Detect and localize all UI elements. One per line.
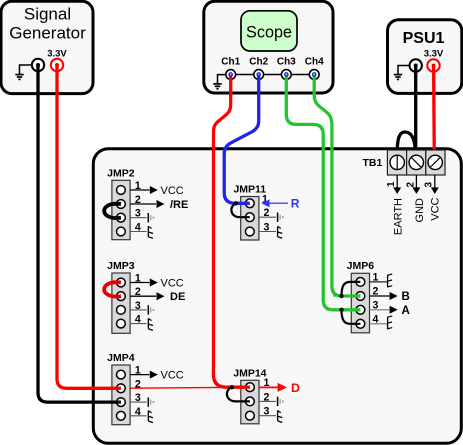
svg-text:4: 4 — [135, 406, 141, 418]
svg-text:Ch1: Ch1 — [221, 57, 240, 68]
JMP4 pin circles — [117, 370, 126, 420]
wire black jumper arc TB1 terminal 2 to terminal 1 — [397, 132, 415, 155]
JMP2 pin 3 stub — [130, 208, 154, 223]
svg-text:4: 4 — [135, 314, 141, 326]
signal generator box — [1, 1, 93, 93]
signal generator red terminal — [51, 59, 63, 71]
JMP4 pin 4 stub — [130, 406, 153, 423]
svg-text:2: 2 — [264, 391, 270, 403]
scope Ch3 pin ring — [285, 73, 288, 76]
svg-text:B: B — [402, 291, 410, 303]
JMP11 jumper pin1-pin2 — [231, 203, 249, 217]
signal generator red terminal dot — [55, 63, 59, 67]
JMP11 header — [233, 183, 266, 240]
JMP11 pin 3 stub — [259, 222, 282, 239]
svg-text:Signal: Signal — [24, 5, 71, 24]
svg-text:2: 2 — [135, 194, 141, 206]
svg-text:VCC: VCC — [429, 197, 441, 220]
PSU1 black terminal — [410, 59, 422, 71]
scope Ch3 connector — [281, 70, 291, 80]
JMP6 pin 3 A arrow — [370, 299, 410, 317]
wire black PSU1 to TB1 terminal 2 — [414, 66, 417, 159]
PSU1 red terminal dot — [432, 64, 436, 68]
JMP2 pin 1 VCC arrow — [130, 180, 184, 197]
svg-text:3: 3 — [135, 392, 141, 404]
svg-text:3: 3 — [373, 299, 379, 311]
JMP11 pin circles — [245, 199, 254, 236]
PSU1 ground — [394, 66, 410, 80]
JMP6 junction dot pin2 — [339, 294, 343, 298]
svg-text:/RE: /RE — [170, 199, 188, 211]
svg-text:JMP2: JMP2 — [107, 167, 135, 179]
svg-text:Generator: Generator — [9, 23, 86, 42]
JMP6 left stub pin 2 — [333, 295, 351, 297]
JMP6 left stub pin 3 — [326, 309, 351, 311]
signal generator black terminal dot — [36, 63, 40, 67]
JMP14 pin circles — [246, 383, 255, 420]
svg-text:Ch4: Ch4 — [305, 57, 324, 68]
signal generator black terminal — [32, 59, 44, 71]
wire red JMP4 pin 2 to JMP14 pin 1 — [130, 386, 240, 389]
JMP14 pin 2 stub — [259, 391, 284, 406]
JMP6 jumper pin3 line to pin4 — [342, 310, 361, 324]
svg-text:EARTH: EARTH — [392, 198, 404, 235]
JMP14 jumper pin1-pin2 — [227, 387, 250, 401]
wire green Ch3 to JMP6 pin 3 — [286, 75, 360, 310]
svg-text:3: 3 — [135, 300, 141, 312]
svg-text:4: 4 — [373, 313, 379, 325]
svg-text:Scope: Scope — [246, 23, 292, 41]
PSU1 box — [388, 20, 462, 94]
signal generator ground — [15, 65, 32, 79]
JMP14 pin 1 D arrow (red) — [259, 377, 300, 395]
TB1 pin 2 arrow — [406, 175, 421, 194]
JMP6 pin circles — [356, 278, 365, 329]
svg-text:4: 4 — [135, 222, 141, 234]
svg-text:1: 1 — [135, 273, 141, 285]
JMP2 jumper pins 2-3 — [104, 204, 121, 218]
TB1 screw terminal 2 — [409, 155, 423, 169]
scope screen — [241, 11, 297, 51]
JMP4 pin 3 stub — [130, 392, 154, 407]
JMP2 header — [107, 167, 135, 239]
svg-text:PSU1: PSU1 — [403, 30, 445, 47]
svg-text:2: 2 — [264, 207, 270, 219]
JMP6 pin 4 stub — [370, 313, 393, 329]
svg-text:1: 1 — [135, 365, 141, 377]
JMP6 junction dot pin3 — [339, 308, 343, 312]
svg-text:3: 3 — [424, 182, 435, 188]
svg-text:VCC: VCC — [161, 370, 184, 382]
PSU1 black terminal dot — [414, 64, 418, 68]
svg-text:A: A — [402, 305, 410, 317]
scope Ch1 connector — [226, 70, 236, 80]
JMP14 junction dot — [230, 385, 234, 389]
JMP3 jumper pins 1-2 (red) — [104, 282, 121, 296]
JMP11 pin 2 stub — [259, 207, 284, 222]
JMP6 header — [347, 260, 375, 333]
svg-text:2: 2 — [406, 182, 417, 188]
wire black signal generator to JMP4 pin 3 — [38, 65, 121, 402]
JMP2 pin 2 /RE arrow — [130, 194, 188, 211]
svg-text:R: R — [291, 197, 300, 211]
TB1 terminal block — [387, 150, 445, 175]
JMP3 header — [107, 260, 135, 333]
svg-text:JMP14: JMP14 — [233, 368, 266, 380]
svg-text:Ch2: Ch2 — [249, 57, 268, 68]
wire blue Ch2 to JMP11 pin 1 — [224, 75, 259, 204]
svg-text:3.3V: 3.3V — [424, 49, 444, 60]
scope Ch1 pin ring — [229, 73, 232, 76]
svg-text:3: 3 — [264, 406, 270, 418]
JMP2 pin circles — [117, 186, 126, 236]
TB1 pin 1 arrow — [386, 175, 401, 194]
svg-text:2: 2 — [135, 286, 141, 298]
svg-text:JMP4: JMP4 — [107, 352, 135, 364]
svg-text:1: 1 — [386, 181, 397, 187]
JMP3 pin circles — [117, 278, 126, 328]
scope bus wire — [231, 74, 315, 76]
svg-text:GND: GND — [414, 198, 426, 223]
scope ground — [213, 75, 225, 89]
JMP3 pin 3 stub — [130, 300, 154, 315]
JMP14 pin 3 stub — [259, 406, 282, 423]
JMP4 header — [107, 352, 135, 425]
PSU1 red terminal — [427, 59, 439, 71]
svg-text:1: 1 — [135, 180, 141, 192]
TB1 screw terminal 1 — [390, 155, 404, 169]
scope box — [204, 1, 333, 93]
svg-text:D: D — [291, 381, 300, 395]
svg-text:TB1: TB1 — [363, 157, 383, 169]
svg-text:JMP6: JMP6 — [347, 260, 375, 272]
TB1 pin 3 arrow — [424, 175, 439, 194]
svg-text:VCC: VCC — [161, 185, 184, 197]
JMP2 pin 4 stub — [130, 222, 153, 239]
svg-text:DE: DE — [170, 291, 185, 303]
svg-text:VCC: VCC — [161, 277, 184, 289]
svg-text:JMP3: JMP3 — [107, 260, 135, 272]
JMP3 pin 1 VCC arrow — [130, 273, 184, 290]
TB1 screw terminal 3 — [428, 155, 442, 169]
svg-text:3: 3 — [135, 208, 141, 220]
svg-text:3: 3 — [264, 222, 270, 234]
wire red signal generator to JMP4 pin 2 — [57, 65, 121, 388]
scope Ch4 pin ring — [313, 73, 316, 76]
svg-text:Ch3: Ch3 — [277, 57, 296, 68]
wire red Ch1 to JMP14 pin 1 — [214, 75, 250, 388]
wire green Ch4 to JMP6 pin 2 — [314, 75, 360, 297]
main board — [93, 149, 461, 444]
JMP11 junction dot — [234, 201, 238, 205]
svg-text:2: 2 — [373, 286, 379, 298]
JMP6 jumper pin1 to pin2 line — [342, 282, 361, 296]
JMP4 pin 1 VCC arrow — [130, 365, 184, 382]
wire red PSU1 to TB1 terminal 3 — [432, 66, 436, 159]
JMP6 pin 1 stub — [370, 271, 393, 287]
JMP3 pin 4 stub — [130, 314, 153, 331]
scope Ch4 connector — [309, 70, 319, 80]
scope Ch2 pin ring — [257, 73, 260, 76]
scope Ch2 connector — [254, 70, 264, 80]
JMP11 pin 1 R arrow (blue) — [261, 194, 299, 211]
JMP14 header — [233, 368, 266, 424]
JMP6 pin 2 B arrow — [370, 286, 410, 304]
JMP3 pin 2 DE arrow — [130, 286, 185, 303]
svg-text:1: 1 — [373, 271, 379, 283]
